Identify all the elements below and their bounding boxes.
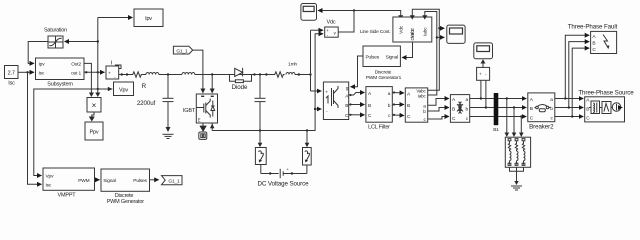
LCL filter block <box>366 87 392 131</box>
three-phase VI measurement block <box>405 88 427 123</box>
negative DC rail (bottom) <box>212 109 315 132</box>
feedback vertical node line (Vpv signal) <box>95 18 100 98</box>
svg-text:Subsystem: Subsystem <box>47 81 73 87</box>
resistor R <box>132 72 147 90</box>
wire from tag down to IGBT gate <box>193 50 206 93</box>
transformer block <box>450 95 469 123</box>
svg-text:Pulses: Pulses <box>133 178 147 184</box>
svg-text:Ipv: Ipv <box>39 62 46 68</box>
three-phase series RLC load block <box>505 137 530 167</box>
scope block (Vdc) <box>301 4 317 21</box>
svg-text:VMPPT: VMPPT <box>58 193 77 199</box>
svg-text:Out2: Out2 <box>71 62 81 68</box>
svg-text:B: B <box>592 40 595 46</box>
svg-text:B: B <box>407 103 410 109</box>
VMPPT block <box>43 168 95 199</box>
svg-text:Vpv: Vpv <box>119 87 128 93</box>
svg-text:Vdc: Vdc <box>327 20 336 26</box>
wire DC rail down to IGBT collector <box>210 73 215 93</box>
wire Vdc output to scope and controller <box>318 9 403 32</box>
discrete PWM generator block <box>101 169 150 205</box>
breaker2 block <box>528 93 555 130</box>
wire product output to Ppv display <box>89 112 95 122</box>
svg-text:Isc: Isc <box>39 71 45 77</box>
svg-text:Discrete: Discrete <box>375 69 392 75</box>
svg-text:i: i <box>111 61 112 67</box>
battery block left <box>255 148 266 165</box>
universal bridge block <box>323 82 349 120</box>
svg-text:1mh: 1mh <box>288 62 297 68</box>
svg-text:R: R <box>142 83 147 90</box>
wire DC+ to bridge and Vdc measurement <box>311 30 324 91</box>
svg-text:Iabc: Iabc <box>418 94 427 99</box>
wire pulses to bridge gate <box>351 56 364 87</box>
svg-text:B: B <box>345 103 348 109</box>
wire rail after diode <box>255 73 274 75</box>
svg-text:Out 1: Out 1 <box>410 29 416 40</box>
taps to three-phase load <box>505 97 524 137</box>
capacitor 2200uf <box>137 75 174 128</box>
saturation block <box>44 28 67 49</box>
svg-text:G1_1: G1_1 <box>176 48 188 54</box>
svg-text:Three-Phase Fault: Three-Phase Fault <box>568 24 618 31</box>
wire Iabc measurement up to controller and scope <box>422 12 444 96</box>
svg-text:IGBT: IGBT <box>183 108 196 114</box>
from tag G1_1 (gate pulse) <box>173 46 192 54</box>
wire controller output to PWM generator1 signal <box>402 42 413 58</box>
svg-text:Ppv: Ppv <box>90 130 99 136</box>
node to capacitor 2200uf <box>167 73 169 75</box>
display block above bus <box>474 43 493 59</box>
diode block <box>229 68 256 91</box>
dc voltage source symbol between batteries <box>258 165 310 188</box>
wire Vpv horizontal feedback to Vpv display and VMPPT <box>34 87 113 176</box>
svg-text:Iabc: Iabc <box>423 27 429 36</box>
wire out1 to controlled current source <box>84 71 105 73</box>
voltage measurement block at bus <box>477 67 490 80</box>
scope block (Vabc Iabc) <box>447 25 465 43</box>
wire to display <box>481 59 486 67</box>
wire Isc branch down to VMPPT <box>28 72 42 184</box>
svg-text:LCL Filter: LCL Filter <box>368 125 390 131</box>
voltage measurement block Vdc <box>325 20 339 38</box>
goto tag G1_1 <box>162 176 183 185</box>
svg-text:Isc: Isc <box>8 81 15 87</box>
controller subsystem Line Side Cont. <box>360 17 432 42</box>
svg-text:Line Side Cont.: Line Side Cont. <box>360 29 391 35</box>
svg-text:Saturation: Saturation <box>44 28 67 34</box>
subsystem block (PV model) <box>36 58 85 87</box>
goto block Ipv <box>134 9 163 27</box>
svg-text:G1_1: G1_1 <box>168 178 180 184</box>
svg-text:2.7: 2.7 <box>8 71 15 77</box>
wire to Ipv goto block <box>98 17 133 19</box>
wire into saturation input (from Vpv feedback vertical) <box>65 41 98 43</box>
svg-text:PWM Generator: PWM Generator <box>107 199 145 205</box>
ground under capacitor <box>163 127 174 139</box>
taps to three-phase fault <box>564 35 589 118</box>
wire pulses to goto tag <box>150 179 159 181</box>
svg-text:Isc: Isc <box>46 182 52 188</box>
svg-text:Diode: Diode <box>232 84 248 91</box>
svg-text:B1: B1 <box>493 127 499 133</box>
wires into battery blocks <box>258 131 310 148</box>
battery block right <box>303 148 312 166</box>
svg-text:Three-Phase Source: Three-Phase Source <box>578 90 634 97</box>
svg-text:out 1: out 1 <box>71 71 81 77</box>
IGBT block <box>183 94 218 123</box>
resistor 1mh series <box>274 62 312 78</box>
svg-text:+: + <box>325 90 328 95</box>
wires VI measurement outputs to transformer <box>428 99 449 120</box>
inductor after R <box>143 73 229 75</box>
wire VMPPT to PWM generator <box>95 179 100 181</box>
load neutral to ground <box>510 167 524 190</box>
wire saturation output to Subsystem Ipv input <box>28 42 48 64</box>
IGBT emitter to negative rail <box>210 123 215 131</box>
svg-text:Vpv: Vpv <box>46 174 55 180</box>
wire Out2 down to product block input 1 <box>84 63 91 92</box>
IGBT measurement output to terminator tag <box>199 123 206 132</box>
svg-text:Breaker2: Breaker2 <box>529 123 554 130</box>
svg-text:B: B <box>586 106 589 112</box>
svg-text:PWM: PWM <box>78 178 89 184</box>
wire DC- to bridge and Vdc measurement <box>314 34 323 110</box>
svg-text:B: B <box>530 106 533 112</box>
svg-text:Ipv: Ipv <box>145 16 152 22</box>
wire Vabc measurement up to controller and scope <box>410 9 445 90</box>
wires bridge outputs to LCL filter <box>349 93 365 116</box>
phase wires breaker to three-phase source <box>555 99 584 117</box>
svg-text:B: B <box>368 103 371 109</box>
wire Isc constant to Subsystem Isc input <box>18 71 34 73</box>
voltage measurement taps at bus <box>480 80 487 108</box>
svg-text:PWM Generator1: PWM Generator1 <box>366 75 402 81</box>
three-phase fault block <box>568 24 618 54</box>
constant block Isc = 2.7 <box>5 66 19 87</box>
display block Ppv <box>85 122 103 140</box>
wires LCL to three-phase VI measurement <box>392 91 404 116</box>
svg-text:Vdc: Vdc <box>399 25 405 34</box>
capacitor on DC link <box>255 75 266 131</box>
phase wires transformer to breaker through bus <box>470 99 527 117</box>
svg-text:E: E <box>198 117 201 122</box>
display block Vpv <box>114 82 134 96</box>
main DC rail + (top) <box>119 73 132 75</box>
svg-text:2200uf: 2200uf <box>137 100 156 107</box>
terminator tag under IGBT <box>199 132 207 139</box>
svg-text:×: × <box>92 101 97 110</box>
svg-text:Signal: Signal <box>103 178 116 184</box>
product block (P = V x I) <box>87 98 101 113</box>
svg-text:Signal: Signal <box>386 54 399 60</box>
svg-text:B: B <box>452 106 455 112</box>
bus bar B1 <box>493 93 499 133</box>
svg-text:DC Voltage Source: DC Voltage Source <box>258 181 310 188</box>
svg-text:Pulses: Pulses <box>366 54 380 60</box>
controlled current source block <box>106 61 121 80</box>
three-phase source block <box>578 90 634 122</box>
PWM generator1 block <box>363 46 402 81</box>
